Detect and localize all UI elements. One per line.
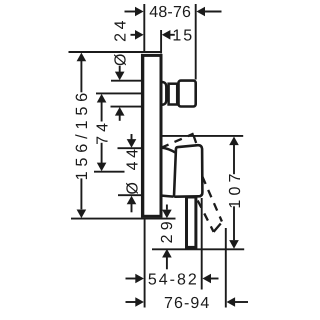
handle sleeve bottom [162, 196, 174, 197]
dim 48-76 tail right [204, 11, 222, 13]
arrow 29 bottom [162, 249, 172, 258]
extension line handle axis [94, 171, 125, 173]
arrow 54-82 right [202, 274, 211, 284]
extension line sleeve bottom [118, 194, 142, 196]
arrow 48-76 right [196, 7, 205, 17]
extension line lever tip bottom [225, 228, 227, 308]
spout cap [179, 81, 196, 107]
dim 15 tail right [170, 34, 175, 36]
extension line plate top [69, 51, 162, 53]
extension line plate bottom [71, 218, 176, 220]
dim 76-94 tail right [235, 301, 249, 303]
arrow 44 top [127, 139, 137, 148]
extension line sleeve top [118, 147, 142, 149]
dim 74 line bottom [101, 143, 103, 163]
extension line handle front bottom [201, 198, 203, 290]
dim 48-76 tail left [125, 11, 137, 13]
arrow 74 bottom [97, 163, 107, 172]
spout dome [162, 82, 167, 105]
dim 29 line bottom [166, 257, 168, 269]
svg-text:48-76: 48-76 [149, 4, 191, 21]
svg-text:156/156: 156/156 [73, 88, 91, 180]
arrow 48-76 left [135, 7, 144, 17]
plate back edge [141, 54, 143, 218]
dim 76-94 tail left [126, 301, 137, 303]
dim 54-82 tail right [211, 278, 219, 280]
lever down [187, 197, 196, 247]
arrow 74 top [97, 94, 107, 103]
lever raised dashed upper [161, 134, 193, 148]
arrow 76-94 right [227, 297, 236, 307]
lever swung dashed right [202, 177, 222, 222]
arrow 29 top [162, 210, 172, 219]
dim 156 line top [80, 61, 82, 92]
dim 24 line bottom [119, 115, 121, 121]
extension line lever bottom [152, 248, 244, 250]
extension line wall plane top [143, 4, 145, 52]
dim 74 line top [101, 102, 103, 122]
dim 156 line bottom [80, 178, 82, 209]
dim 54-82 tail left [126, 278, 137, 280]
dim 44 line top [131, 134, 133, 140]
spout collar [169, 84, 178, 105]
dim 107 line bottom [233, 206, 235, 240]
arrow 24 bottom [115, 107, 125, 116]
arrow 44 bottom [127, 196, 137, 205]
lever swung dashed left [198, 201, 214, 232]
arrow 15 right [162, 30, 171, 40]
arrow 76-94 left [135, 297, 144, 307]
extension line spout axis [96, 92, 142, 94]
extension line handle zone top [161, 135, 243, 137]
plate [143, 55, 161, 216]
svg-text:76-94: 76-94 [164, 295, 210, 312]
extension line spout bottom [111, 106, 142, 108]
arrow 15 left [135, 30, 144, 40]
arrow 156 bottom [77, 210, 87, 219]
svg-text:15: 15 [172, 28, 194, 45]
arrow 156 top [77, 53, 87, 62]
handle sleeve top [162, 148, 176, 153]
lever raised dashed end [194, 135, 199, 148]
dim 15 tail left [131, 34, 137, 36]
svg-text:Ø 24: Ø 24 [113, 17, 130, 66]
svg-text:107: 107 [227, 169, 244, 208]
extension line plate front top [160, 30, 162, 53]
handle body [174, 145, 202, 197]
dim 29 line top [166, 205, 168, 210]
extension line spout front [195, 4, 197, 80]
arrow 107 bottom [229, 240, 239, 249]
arrow 54-82 left [135, 274, 144, 284]
arrow 24 top [115, 72, 125, 81]
extension line wall plane bottom [144, 220, 146, 308]
dim 24 line top [119, 66, 121, 72]
svg-text:74: 74 [94, 119, 111, 145]
dim 107 line top [233, 145, 235, 174]
svg-text:54-82: 54-82 [148, 271, 199, 288]
svg-text:Ø 44: Ø 44 [124, 145, 141, 194]
svg-text:29: 29 [159, 217, 176, 243]
dim 44 line bottom [131, 204, 133, 213]
extension line spout top [111, 80, 142, 82]
lever swung dashed end [214, 222, 223, 232]
arrow 107 top [229, 137, 239, 146]
